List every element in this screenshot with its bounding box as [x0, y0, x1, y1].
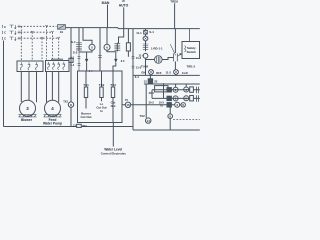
fuse S-1 right	[145, 29, 147, 31]
contactor M1 poles	[20, 62, 38, 70]
svg-text:C: C	[4, 25, 6, 29]
lamp 6	[106, 28, 108, 45]
svg-text:4: 4	[51, 106, 54, 111]
svg-text:19: 19	[60, 30, 64, 34]
motor feed water pump	[45, 100, 61, 116]
motor pump base	[44, 115, 62, 117]
burner control box	[78, 71, 123, 123]
heater TX1	[85, 71, 87, 87]
svg-text:In: In	[100, 109, 103, 113]
motor blower base	[19, 115, 37, 117]
lamp 5	[83, 28, 92, 45]
wire drop to relay 8	[70, 28, 72, 127]
svg-text:20-1: 20-1	[149, 91, 155, 95]
relay row 1	[152, 89, 200, 91]
wire MAN drop	[107, 5, 109, 28]
pilot R	[174, 70, 179, 75]
wire phase drop 1a	[20, 26, 22, 60]
contactor box M1	[17, 61, 43, 72]
svg-text:3: 3	[26, 106, 29, 111]
svg-text:S-1: S-1	[149, 30, 154, 34]
svg-text:1-RD-1-1: 1-RD-1-1	[151, 46, 163, 50]
supply line L3 terminal glyphs	[2, 37, 21, 41]
pilot top right	[145, 34, 147, 36]
svg-text:C: C	[4, 37, 6, 41]
svg-text:Blower: Blower	[21, 118, 33, 122]
arrow into safety switch	[178, 54, 181, 56]
safety switch box	[182, 42, 200, 59]
svg-text:C: C	[4, 31, 6, 35]
svg-text:S-2: S-2	[73, 51, 78, 55]
svg-text:S-1: S-1	[71, 40, 76, 44]
wire drop 128 with relay coil	[127, 29, 129, 43]
svg-text:T04: T04	[82, 124, 87, 128]
svg-text:14: 14	[147, 119, 151, 123]
wire lamp to valve arrow 1	[79, 50, 92, 59]
wire lamp6 to valve arrow 2	[107, 50, 116, 59]
wire phase drop 3a	[41, 38, 43, 60]
pilot 9	[169, 107, 171, 114]
wire phase drop 2b	[51, 32, 53, 59]
supply line L1 terminal glyphs	[2, 25, 21, 29]
coil TRD1	[145, 41, 147, 51]
svg-text:3: 3	[176, 103, 178, 107]
svg-text:M2M2M2M2: M2M2M2M2	[51, 59, 64, 61]
wire L3 dashed	[21, 37, 59, 39]
heater TX2	[101, 71, 103, 87]
relay 14	[146, 118, 151, 123]
contact TD-1	[174, 29, 176, 53]
svg-text:Water Pump: Water Pump	[43, 121, 62, 125]
wire AUTO drop	[117, 7, 123, 43]
contacts 6-1 6-4	[78, 51, 81, 72]
svg-text:GN: GN	[141, 70, 145, 74]
svg-text:Control Electrodes: Control Electrodes	[101, 152, 126, 156]
wire phase drop 2a	[31, 32, 33, 60]
wire TRD2 drop	[174, 3, 176, 28]
svg-text:Cut Out: Cut Out	[81, 115, 92, 119]
junction arrows on supply rows	[31, 25, 60, 38]
svg-text:6-3: 6-3	[121, 60, 125, 63]
heater TX3	[112, 71, 114, 87]
contactor box M2	[46, 61, 70, 72]
svg-text:6-1: 6-1	[70, 55, 74, 59]
svg-text:11-R: 11-R	[182, 71, 188, 75]
contactor M2 poles	[47, 62, 65, 70]
relay 8	[68, 102, 73, 107]
switch S (MAN disconnect)	[58, 25, 66, 34]
wire row bus	[144, 83, 200, 85]
wire M1 to blower motor	[21, 72, 36, 103]
svg-text:22: 22	[154, 79, 158, 83]
wire L1 dashed	[21, 25, 57, 27]
svg-text:TRD2: TRD2	[170, 0, 178, 4]
transformer S-3	[116, 43, 118, 52]
water level electrode wire	[112, 98, 114, 147]
dashed run right	[173, 119, 200, 121]
motor blower	[20, 100, 36, 116]
svg-text:TU-M: TU-M	[141, 65, 149, 69]
wire safety feed	[189, 29, 191, 42]
bottom right rail	[133, 126, 200, 130]
wire left frame	[4, 41, 134, 127]
wire to contact TD	[162, 58, 173, 60]
svg-text:OFF: OFF	[156, 71, 162, 75]
svg-text:MAN: MAN	[102, 1, 110, 5]
wire lower cross	[122, 104, 181, 106]
svg-text:20-2: 20-2	[149, 101, 155, 105]
wire M2 to pump motor	[47, 72, 59, 103]
svg-text:11-2: 11-2	[166, 71, 172, 75]
svg-text:12: 12	[144, 79, 148, 83]
wire long drop 133	[132, 29, 134, 127]
aux contact block	[69, 58, 73, 62]
svg-text:11-1: 11-1	[136, 31, 142, 35]
wire phase drop 3b	[58, 38, 60, 59]
timer motor	[146, 59, 155, 61]
svg-text:TX3: TX3	[63, 99, 68, 103]
wire L2 dashed	[21, 31, 53, 33]
wire pilot bus	[133, 74, 200, 76]
svg-text:AUTO: AUTO	[119, 4, 129, 8]
svg-text:20: 20	[122, 0, 125, 3]
svg-text:TX2: TX2	[140, 114, 146, 118]
svg-text:8: 8	[70, 103, 72, 107]
wire 20-2 drop	[145, 84, 147, 118]
wire mid drop to box	[99, 28, 101, 71]
wire phase drop 1b	[46, 26, 48, 59]
svg-text:6-4: 6-4	[70, 63, 74, 67]
svg-text:16: 16	[126, 103, 130, 107]
svg-text:Switch: Switch	[187, 50, 197, 54]
svg-text:6: 6	[106, 46, 108, 50]
relay row 2	[152, 97, 200, 99]
supply line L2 terminal glyphs	[2, 31, 21, 35]
wire main bus left	[66, 28, 200, 29]
svg-text:TIR1-2: TIR1-2	[187, 64, 196, 68]
svg-text:5: 5	[91, 46, 93, 50]
pilot 3	[175, 102, 180, 107]
